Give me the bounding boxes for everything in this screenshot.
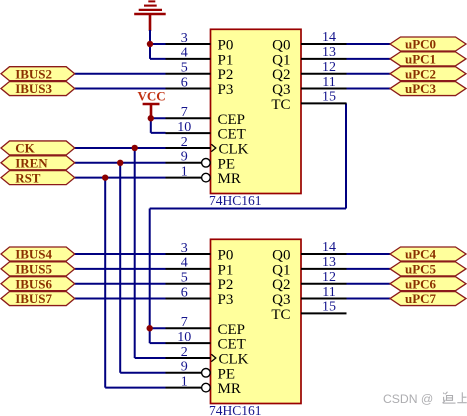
svg-text:11: 11 [322, 285, 335, 300]
svg-text:6: 6 [181, 75, 188, 90]
port IBUS4 [1, 247, 75, 262]
svg-text:Q3: Q3 [272, 82, 290, 98]
wire TC to U2 pin7 CEP [150, 327, 166, 329]
svg-text:9: 9 [181, 150, 188, 165]
svg-text:uPC2: uPC2 [405, 66, 436, 81]
wire IBUS5 to U2 P1 [75, 268, 166, 270]
svg-text:uPC6: uPC6 [405, 276, 437, 291]
port uPC4 [390, 247, 466, 262]
op-amp-style IC body U2 74HC161 [211, 239, 302, 403]
U2 pin 4 P1 [166, 256, 234, 279]
port uPC7 [390, 291, 466, 306]
U1 pin 10 CET [166, 120, 246, 143]
U1 pin 15 TC [271, 90, 346, 113]
wire IBUS6 to U2 P2 [75, 283, 166, 285]
U1 pin 4 P1 [166, 46, 234, 69]
port IREN [1, 155, 75, 170]
junction GND net at P0 [147, 41, 153, 47]
svg-text:5: 5 [181, 61, 188, 76]
wire CK to U1 pin2 CLK [75, 147, 166, 149]
wire U1 Q2 to uPC2 [347, 73, 391, 75]
wire U2 Q0 to uPC4 [347, 253, 391, 255]
svg-text:CET: CET [218, 337, 246, 353]
U2 value label 74HC161 [209, 403, 262, 416]
wire RST branch down to U2 MR [104, 178, 106, 388]
svg-text:CEP: CEP [218, 322, 246, 338]
U2 pin 2 CLK [166, 345, 249, 368]
U1 pin 6 P3 [166, 75, 234, 98]
svg-text:1: 1 [181, 164, 188, 179]
svg-text:P2: P2 [218, 67, 234, 83]
port IBUS7 [1, 291, 75, 306]
svg-text:3: 3 [181, 31, 188, 46]
port IBUS3 [1, 81, 75, 96]
svg-text:1: 1 [181, 374, 188, 389]
svg-text:14: 14 [322, 240, 336, 255]
svg-text:CK: CK [15, 141, 35, 156]
port uPC5 [390, 261, 466, 276]
U1 pin 14 Q0 [272, 30, 346, 53]
svg-text:uPC4: uPC4 [405, 247, 437, 262]
svg-text:IBUS7: IBUS7 [15, 291, 52, 306]
port uPC6 [390, 276, 466, 291]
svg-text:CSDN @: CSDN @ [383, 392, 433, 406]
svg-text:74HC161: 74HC161 [209, 193, 262, 208]
wire TC to U2 pin10 CET [150, 342, 166, 344]
wire U1 Q1 to uPC1 [347, 58, 391, 60]
port IBUS6 [1, 276, 75, 291]
wire U1 Q3 to uPC3 [347, 88, 391, 90]
svg-text:IBUS6: IBUS6 [15, 276, 52, 291]
port uPC3 [390, 81, 466, 96]
wire IBUS7 to U2 P3 [75, 298, 166, 300]
U1 pin 7 CEP [166, 105, 246, 128]
svg-text:uPC5: uPC5 [405, 261, 437, 276]
svg-text:IBUS5: IBUS5 [15, 261, 52, 276]
power VCC symbol [138, 88, 166, 118]
U2 pin 12 Q2 [272, 270, 346, 293]
svg-text:14: 14 [322, 30, 336, 45]
svg-text:5: 5 [181, 271, 188, 286]
svg-text:Q0: Q0 [272, 248, 290, 264]
svg-text:13: 13 [322, 255, 336, 270]
U1 pin 5 P2 [166, 61, 234, 84]
wire GND down to P1 [149, 44, 151, 59]
svg-text:10: 10 [177, 330, 191, 345]
svg-text:Q0: Q0 [272, 38, 290, 54]
op-amp-style IC body U1 74HC161 [211, 29, 302, 193]
U2 pin 10 CET [166, 330, 246, 353]
U2 pin 6 P3 [166, 285, 234, 308]
svg-text:Q1: Q1 [272, 52, 290, 68]
svg-text:PE: PE [218, 366, 236, 382]
wire IBUS3 to U1 pin6 P3 [75, 88, 166, 90]
wire CK branch down to U2 CLK [134, 148, 136, 358]
svg-text:P2: P2 [218, 277, 234, 293]
svg-text:15: 15 [322, 90, 336, 105]
wire VCC down to CET [150, 118, 152, 133]
svg-text:9: 9 [181, 360, 188, 375]
port uPC1 [390, 51, 466, 66]
wire CK branch to U2 pin2 CLK [135, 357, 166, 359]
wire RST branch to U2 pin1 MR [105, 387, 165, 389]
svg-text:CLK: CLK [219, 141, 249, 157]
svg-text:P3: P3 [218, 292, 234, 308]
svg-text:uPC0: uPC0 [405, 37, 436, 52]
svg-text:4: 4 [181, 256, 188, 271]
svg-text:IREN: IREN [15, 155, 48, 170]
wire GND down to P0 [149, 30, 151, 44]
wire TC down to U2 CET [149, 209, 151, 344]
junction RST net [102, 174, 108, 180]
port RST [1, 170, 75, 185]
wire U2 Q2 to uPC6 [347, 283, 391, 285]
junction IREN net [117, 160, 123, 166]
svg-text:Q2: Q2 [272, 277, 290, 293]
svg-text:3: 3 [181, 241, 188, 256]
U2 pin 3 P0 [166, 241, 234, 264]
wire U1 TC down right side [345, 103, 347, 208]
svg-text:IBUS3: IBUS3 [15, 81, 52, 96]
svg-text:2: 2 [181, 135, 188, 150]
port IBUS2 [1, 66, 75, 81]
svg-text:IBUS2: IBUS2 [15, 66, 52, 81]
U2 pin 15 TC [271, 300, 346, 323]
junction CK net [132, 145, 138, 151]
U2 pin 11 Q3 [272, 285, 346, 308]
port IBUS5 [1, 261, 75, 276]
svg-text:TC: TC [271, 97, 290, 113]
wire IBUS4 to U2 P0 [75, 253, 166, 255]
wire TC across to left [150, 208, 346, 210]
svg-text:12: 12 [322, 270, 336, 285]
svg-text:uPC1: uPC1 [405, 51, 436, 66]
U1 pin 3 P0 [166, 31, 234, 54]
U2 pin 7 CEP [166, 315, 246, 338]
U2 pin 14 Q0 [272, 240, 346, 263]
svg-text:CLK: CLK [219, 351, 249, 367]
U2 pin 9 PE (active low bubble) [166, 360, 236, 383]
junction TC net at U2 CEP [147, 325, 153, 331]
svg-text:11: 11 [322, 75, 335, 90]
svg-text:6: 6 [181, 285, 188, 300]
wire GND to U1 pin3 P0 [150, 43, 166, 45]
U1 pin 13 Q1 [272, 45, 346, 68]
U2 pin 13 Q1 [272, 255, 346, 278]
wire GND to U1 pin4 P1 [150, 58, 166, 60]
wire IBUS2 to U1 pin5 P2 [75, 73, 166, 75]
svg-text:P1: P1 [218, 262, 234, 278]
svg-text:P0: P0 [218, 248, 234, 264]
U1 pin 1 MR (active low bubble) [166, 164, 241, 187]
U1 value label 74HC161 [209, 193, 262, 208]
svg-text:12: 12 [322, 60, 336, 75]
watermark CSDN [383, 392, 467, 406]
port uPC2 [390, 66, 466, 81]
U1 pin 12 Q2 [272, 60, 346, 83]
svg-text:Q1: Q1 [272, 262, 290, 278]
wire IREN branch to U2 pin9 PE [120, 372, 165, 374]
U1 pin 9 PE (active low bubble) [166, 150, 236, 173]
svg-text:4: 4 [181, 46, 188, 61]
svg-text:74HC161: 74HC161 [209, 403, 262, 416]
svg-text:TC: TC [271, 307, 290, 323]
svg-text:2: 2 [181, 345, 188, 360]
wire RST to U1 pin1 MR [75, 177, 166, 179]
svg-text:P0: P0 [218, 38, 234, 54]
svg-text:Q3: Q3 [272, 292, 290, 308]
junction VCC net at CEP [148, 115, 154, 121]
wire IREN to U1 pin9 PE [75, 162, 166, 164]
wire IREN branch down to U2 PE [119, 163, 121, 373]
svg-text:uPC3: uPC3 [405, 81, 437, 96]
svg-text:15: 15 [322, 300, 336, 315]
svg-text:P3: P3 [218, 82, 234, 98]
U1 pin 2 CLK [166, 135, 249, 158]
svg-text:PE: PE [218, 156, 236, 172]
svg-text:MR: MR [218, 171, 241, 187]
svg-text:7: 7 [181, 315, 188, 330]
svg-text:uPC7: uPC7 [405, 291, 437, 306]
svg-text:Q2: Q2 [272, 67, 290, 83]
wire VCC to U1 pin10 CET [151, 132, 166, 134]
svg-text:CEP: CEP [218, 112, 246, 128]
svg-text:P1: P1 [218, 52, 234, 68]
U2 pin 5 P2 [166, 271, 234, 294]
svg-text:CET: CET [218, 127, 246, 143]
svg-text:IBUS4: IBUS4 [15, 247, 52, 262]
svg-text:RST: RST [15, 170, 41, 185]
wire U1 Q0 to uPC0 [347, 43, 391, 45]
U2 pin 1 MR (active low bubble) [166, 374, 241, 397]
wire U2 Q3 to uPC7 [347, 298, 391, 300]
svg-text:VCC: VCC [138, 88, 166, 103]
port uPC0 [390, 37, 466, 52]
svg-text:13: 13 [322, 45, 336, 60]
port CK [1, 141, 75, 156]
svg-text:10: 10 [177, 120, 191, 135]
wire U2 Q1 to uPC5 [347, 268, 391, 270]
svg-text:7: 7 [181, 105, 188, 120]
wire VCC to U1 pin7 CEP [151, 117, 166, 119]
svg-text:MR: MR [218, 381, 241, 397]
U1 pin 11 Q3 [272, 75, 346, 98]
ground symbol (net GND at U1.P0/P1) [134, 1, 166, 31]
